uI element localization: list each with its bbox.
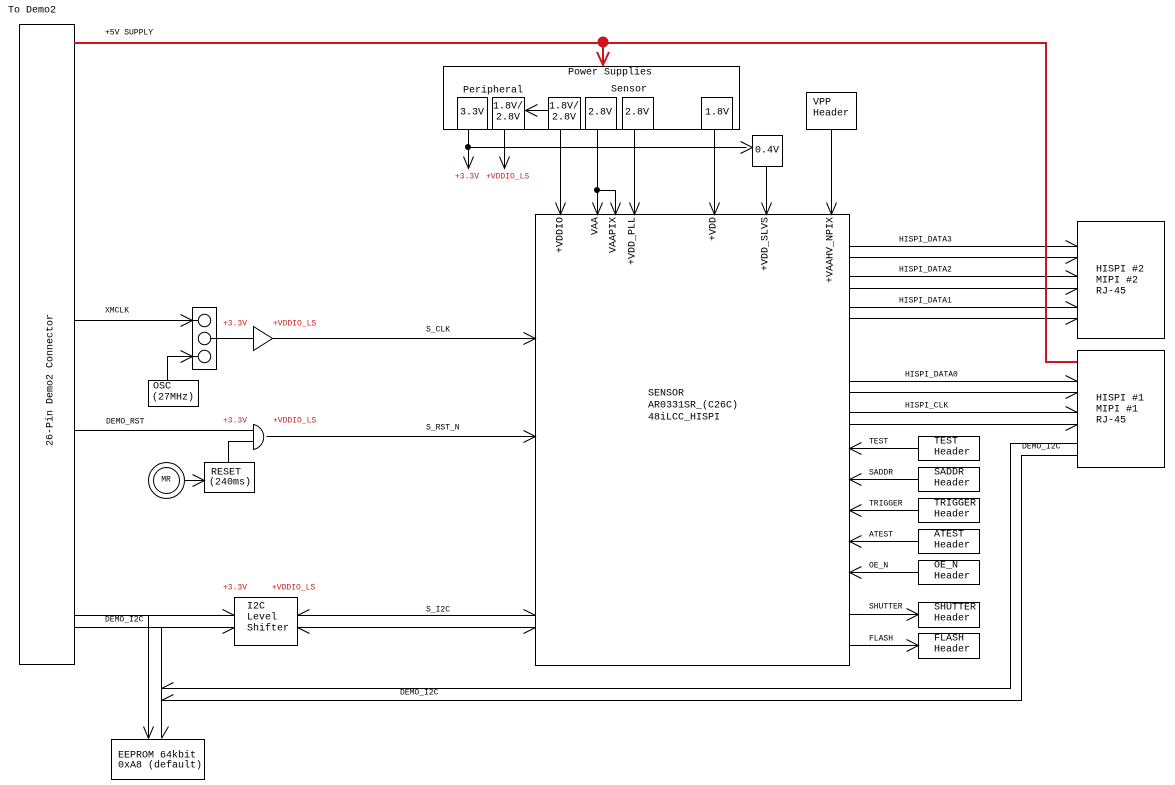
- svg-text:+VDDIO_LS: +VDDIO_LS: [272, 584, 315, 593]
- svg-text:+3.3V: +3.3V: [455, 173, 479, 182]
- svg-text:0.4V: 0.4V: [755, 146, 779, 157]
- svg-text:S_CLK: S_CLK: [426, 326, 450, 335]
- svg-text:+3.3V: +3.3V: [223, 417, 247, 426]
- svg-text:FLASH: FLASH: [869, 635, 893, 644]
- svg-text:Power Supplies: Power Supplies: [568, 67, 652, 79]
- svg-text:S_RST_N: S_RST_N: [426, 424, 460, 433]
- svg-text:1.8V/: 1.8V/: [493, 101, 523, 113]
- svg-text:+VDD_PLL: +VDD_PLL: [628, 217, 639, 265]
- svg-text:DEMO_RST: DEMO_RST: [106, 418, 145, 427]
- svg-text:+VDD_SLVS: +VDD_SLVS: [761, 217, 772, 271]
- svg-text:TEST: TEST: [869, 438, 888, 447]
- svg-text:HISPI #1: HISPI #1: [1096, 394, 1144, 405]
- svg-text:FLASH: FLASH: [934, 634, 964, 645]
- svg-text:Shifter: Shifter: [247, 623, 289, 635]
- svg-text:Header: Header: [934, 644, 970, 656]
- svg-text:VAA: VAA: [591, 217, 602, 235]
- svg-text:OE_N: OE_N: [934, 561, 958, 572]
- svg-text:To Demo2: To Demo2: [8, 6, 56, 17]
- svg-text:VAAPIX: VAAPIX: [609, 217, 620, 253]
- svg-text:+VDD: +VDD: [709, 217, 720, 241]
- svg-text:+VDDIO_LS: +VDDIO_LS: [273, 320, 316, 329]
- svg-text:MIPI #1: MIPI #1: [1096, 405, 1138, 416]
- svg-text:+3.3V: +3.3V: [223, 320, 247, 329]
- svg-text:TRIGGER: TRIGGER: [934, 499, 976, 510]
- svg-text:Header: Header: [934, 509, 970, 521]
- svg-text:Sensor: Sensor: [611, 85, 647, 96]
- svg-text:Header: Header: [934, 540, 970, 552]
- svg-text:1.8V/: 1.8V/: [549, 101, 579, 113]
- svg-text:SHUTTER: SHUTTER: [869, 603, 903, 612]
- svg-text:+VAAHV_NPIX: +VAAHV_NPIX: [826, 217, 837, 283]
- svg-text:HISPI_CLK: HISPI_CLK: [905, 402, 948, 411]
- svg-text:1.8V: 1.8V: [705, 108, 729, 119]
- svg-text:0xA8 (default): 0xA8 (default): [118, 760, 202, 772]
- svg-text:Header: Header: [934, 447, 970, 459]
- svg-text:DEMO_I2C: DEMO_I2C: [105, 616, 144, 625]
- svg-text:2.8V: 2.8V: [588, 108, 612, 119]
- svg-text:Peripheral: Peripheral: [463, 85, 523, 97]
- svg-text:TRIGGER: TRIGGER: [869, 500, 903, 509]
- svg-text:HISPI_DATA1: HISPI_DATA1: [899, 297, 952, 306]
- svg-text:SADDR: SADDR: [869, 469, 893, 478]
- svg-text:48iLCC_HISPI: 48iLCC_HISPI: [648, 412, 720, 424]
- svg-text:XMCLK: XMCLK: [105, 307, 129, 316]
- svg-text:HISPI_DATA3: HISPI_DATA3: [899, 236, 952, 245]
- svg-text:VPP: VPP: [813, 98, 831, 109]
- svg-text:Header: Header: [934, 571, 970, 583]
- svg-text:HISPI_DATA2: HISPI_DATA2: [899, 266, 952, 275]
- svg-text:Level: Level: [247, 612, 277, 624]
- svg-text:HISPI #2: HISPI #2: [1096, 265, 1144, 276]
- svg-text:DEMO_I2C: DEMO_I2C: [400, 689, 439, 698]
- svg-text:SENSOR: SENSOR: [648, 389, 684, 400]
- svg-text:ATEST: ATEST: [934, 530, 964, 541]
- svg-text:RJ-45: RJ-45: [1096, 416, 1126, 427]
- svg-text:+3.3V: +3.3V: [223, 584, 247, 593]
- svg-text:ATEST: ATEST: [869, 531, 893, 540]
- svg-text:RJ-45: RJ-45: [1096, 287, 1126, 298]
- svg-text:HISPI_DATA0: HISPI_DATA0: [905, 371, 958, 380]
- svg-text:+5V SUPPLY: +5V SUPPLY: [105, 29, 153, 38]
- svg-text:+VDDIO: +VDDIO: [556, 217, 567, 253]
- svg-text:TEST: TEST: [934, 437, 958, 448]
- svg-text:(240ms): (240ms): [209, 477, 251, 489]
- svg-text:DEMO_I2C: DEMO_I2C: [1022, 443, 1061, 452]
- svg-text:OE_N: OE_N: [869, 562, 888, 571]
- svg-text:2.8V: 2.8V: [496, 113, 520, 124]
- svg-text:3.3V: 3.3V: [460, 108, 484, 119]
- svg-text:+VDDIO_LS: +VDDIO_LS: [273, 417, 316, 426]
- svg-text:Header: Header: [934, 478, 970, 490]
- svg-text:(27MHz): (27MHz): [152, 392, 194, 404]
- svg-text:OSC: OSC: [153, 382, 171, 393]
- svg-text:MIPI #2: MIPI #2: [1096, 276, 1138, 287]
- svg-text:AR0331SR_(C26C): AR0331SR_(C26C): [648, 400, 738, 412]
- svg-text:MR: MR: [161, 476, 171, 485]
- svg-text:Header: Header: [813, 108, 849, 120]
- svg-text:Header: Header: [934, 613, 970, 625]
- svg-text:+VDDIO_LS: +VDDIO_LS: [486, 173, 529, 182]
- svg-text:2.8V: 2.8V: [625, 108, 649, 119]
- svg-text:SADDR: SADDR: [934, 468, 964, 479]
- svg-text:S_I2C: S_I2C: [426, 606, 450, 615]
- svg-text:2.8V: 2.8V: [552, 113, 576, 124]
- svg-text:26-Pin Demo2 Connector: 26-Pin Demo2 Connector: [45, 314, 57, 446]
- svg-text:SHUTTER: SHUTTER: [934, 603, 976, 614]
- svg-text:I2C: I2C: [247, 602, 265, 613]
